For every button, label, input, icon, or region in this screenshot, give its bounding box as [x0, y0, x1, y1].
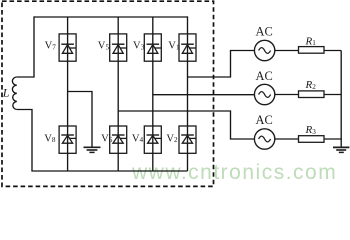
ground right (output common)	[333, 147, 349, 152]
AC source 3	[254, 129, 274, 149]
wire branch 1	[67, 17, 69, 171]
AC source 2	[254, 84, 274, 104]
internal ground	[84, 147, 101, 152]
wire branch3 mid to AC2	[153, 94, 255, 96]
thyristor V4	[144, 126, 161, 153]
dashed border of converter block	[2, 1, 214, 186]
thyristor V1	[179, 34, 196, 61]
svg-text:AC: AC	[256, 25, 273, 39]
wire R2 to right bus	[324, 94, 341, 96]
svg-text:AC: AC	[256, 113, 273, 127]
wire branch2 mid to AC3	[118, 111, 254, 139]
thyristor V6	[110, 126, 127, 153]
wire AC1 to R1	[275, 50, 299, 52]
inductor L	[12, 77, 16, 110]
svg-text:L: L	[2, 86, 10, 100]
wire R1 to right bus	[324, 50, 341, 52]
wire AC2 to R2	[275, 94, 299, 96]
thyristor V7	[59, 34, 76, 61]
thyristor V5	[110, 34, 127, 61]
thyristor V3	[144, 34, 161, 61]
wire right return bus	[340, 51, 342, 148]
svg-text:www.cntronics.com: www.cntronics.com	[131, 161, 337, 184]
thyristor V2	[179, 126, 196, 153]
resistor R2	[299, 91, 325, 98]
wire branch1 mid to internal ground	[68, 92, 92, 148]
wire left vertical from top bus to inductor	[17, 16, 34, 77]
svg-text:AC: AC	[256, 69, 273, 83]
wire bottom bus	[31, 170, 187, 172]
AC source 1	[254, 40, 274, 60]
wire top bus	[34, 16, 188, 18]
wire branch 3	[152, 17, 154, 171]
wire branch 2	[117, 17, 119, 171]
thyristor V8	[59, 126, 76, 153]
resistor R1	[299, 47, 325, 54]
wire branch4 mid to AC1	[188, 51, 255, 78]
wire branch 4	[187, 16, 189, 171]
wire inductor bottom to bottom bus	[17, 110, 32, 172]
wire R3 to right bus	[324, 138, 341, 140]
resistor R3	[299, 136, 325, 143]
wire AC3 to R3	[275, 138, 299, 140]
